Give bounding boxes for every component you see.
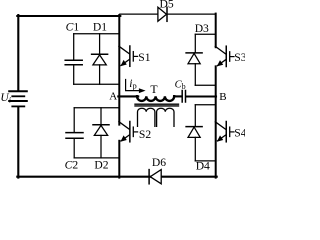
transformer core [135, 104, 179, 106]
svg-text:Ui: Ui [0, 92, 11, 105]
diode D3 cell [195, 34, 215, 85]
svg-text:S4: S4 [234, 126, 245, 139]
switch S4 [215, 122, 234, 142]
diode D5 [158, 7, 167, 21]
svg-text:ip: ip [129, 78, 136, 91]
C1 D1 snubber cell [74, 34, 119, 84]
svg-text:D5: D5 [160, 0, 174, 11]
svg-text:A: A [109, 91, 117, 103]
current arrow ip [126, 80, 146, 94]
switch S3 [215, 46, 234, 66]
wire D5 branch [120, 13, 216, 15]
wire left leg upper [118, 15, 120, 125]
svg-text:D4: D4 [196, 160, 210, 173]
svg-text:T: T [150, 82, 158, 96]
transformer T primary winding [137, 96, 174, 101]
svg-text:D3: D3 [195, 22, 209, 35]
diode D6 [149, 170, 161, 184]
node A wire [118, 95, 138, 97]
voltage source Ui [9, 15, 27, 178]
capacitor C2 [66, 108, 83, 158]
switch S2 [119, 122, 138, 142]
C2 D2 snubber cell [74, 108, 118, 158]
transformer T secondary winding [138, 108, 175, 126]
svg-text:Cb: Cb [175, 80, 186, 92]
svg-text:S2: S2 [139, 128, 151, 141]
svg-text:D2: D2 [94, 159, 108, 172]
svg-text:S3: S3 [234, 51, 245, 64]
capacitor C1 [65, 34, 82, 84]
svg-text:D6: D6 [152, 156, 166, 169]
wire right leg lower [215, 66, 217, 177]
wire right leg upper [215, 14, 217, 48]
wire top rail [17, 15, 120, 17]
diode D4 [186, 105, 202, 161]
wire primary to Cb [174, 95, 182, 97]
diode D3 [186, 34, 202, 85]
diode D1 [92, 34, 108, 84]
diode D4 cell [195, 105, 215, 161]
svg-text:S1: S1 [138, 51, 150, 64]
diode D2 [93, 108, 109, 158]
svg-text:B: B [219, 91, 226, 103]
switch S1 [119, 46, 138, 66]
svg-text:C1: C1 [66, 21, 80, 34]
node B wire [186, 95, 216, 97]
capacitor Cb [182, 91, 185, 103]
svg-text:C2: C2 [65, 159, 79, 172]
svg-text:D1: D1 [93, 21, 107, 34]
wire bottom rail [17, 176, 216, 178]
wire left leg lower [118, 141, 120, 178]
